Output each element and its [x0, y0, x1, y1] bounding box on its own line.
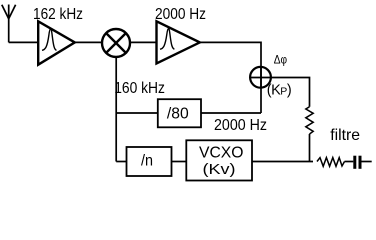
wire /80 to phase comparator: [201, 112, 261, 114]
wire amp2 to phase comparator: [200, 42, 261, 67]
bandpass curve inside A2: [160, 29, 174, 50]
svg-text:2000 Hz: 2000 Hz: [155, 6, 206, 23]
svg-text:/80: /80: [167, 105, 189, 122]
divider /80 box: [158, 99, 201, 127]
wire /n to VCXO: [172, 161, 187, 163]
svg-text:filtre: filtre: [330, 127, 360, 144]
svg-text:160 kHz: 160 kHz: [114, 80, 165, 97]
wire VCXO to node: [252, 161, 313, 163]
svg-text:2000 Hz: 2000 Hz: [214, 117, 267, 134]
+ cross vertical: [260, 67, 262, 88]
mixer (circle with X): [102, 29, 130, 57]
svg-text:Δφ: Δφ: [274, 52, 287, 66]
wire mixer down (160 kHz line): [115, 57, 117, 162]
wire branch to /80: [116, 112, 158, 114]
op-amp A1 (RF amplifier with bandpass curve): [38, 21, 75, 64]
svg-text:VCXO: VCXO: [199, 145, 244, 162]
VCXO box: [186, 140, 252, 180]
wire resistor to node: [309, 134, 311, 162]
bandpass curve inside A1: [42, 29, 57, 51]
svg-text:/n: /n: [141, 152, 153, 169]
resistor R (vertical, filter): [306, 107, 313, 134]
op-amp A2 (2000 Hz amplifier with bandpass curve): [157, 21, 200, 63]
wire resistor to capacitor: [345, 161, 354, 163]
capacitor C (series): [355, 156, 360, 169]
wire amp1 to mixer: [75, 41, 102, 43]
svg-text:162 kHz: 162 kHz: [33, 6, 83, 23]
wire phase comparator bottom to /80 output: [260, 88, 262, 113]
wire mixer to amp2: [130, 41, 157, 43]
wire down-line to /n: [116, 161, 126, 163]
phase comparator (circle with +): [250, 67, 271, 88]
resistor (horizontal, RC filter): [317, 158, 345, 167]
divider /n box: [127, 147, 172, 176]
wire capacitor out: [362, 161, 372, 163]
svg-text:(KP): (KP): [267, 83, 291, 99]
wire antenna to amp1: [9, 41, 39, 43]
svg-text:(Kv): (Kv): [203, 161, 236, 178]
antenna: [2, 5, 16, 43]
+ cross horizontal and output wire to filter: [250, 78, 310, 107]
